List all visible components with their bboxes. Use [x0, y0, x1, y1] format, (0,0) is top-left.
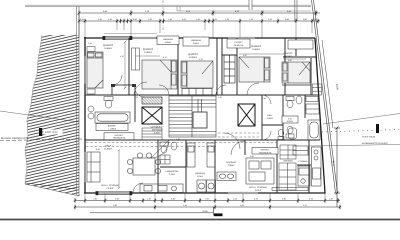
svg-text:TRANQUETA: TRANQUETA: [113, 137, 126, 140]
street level marker: [39, 128, 42, 136]
svg-text:4,70: 4,70: [199, 58, 203, 61]
window left wall: [84, 56, 86, 84]
corridor right fixtures: wc top: [286, 96, 318, 138]
svg-text:0,80: 0,80: [303, 18, 307, 21]
svg-text:13,80m²: 13,80m²: [252, 48, 260, 51]
varanda label box B: [183, 37, 209, 46]
windows on top wall: [132, 37, 255, 39]
washers: [197, 180, 216, 192]
duct box: [112, 85, 135, 95]
bed room1: [87, 52, 103, 88]
svg-text:5,75: 5,75: [333, 160, 336, 165]
small bath: [160, 142, 177, 164]
internal dim room5: [283, 58, 306, 60]
svg-text:3,95: 3,95: [250, 155, 254, 158]
left wall: [84, 37, 86, 194]
bathtub right vertical: [308, 120, 320, 140]
svg-text:2,05: 2,05: [182, 18, 186, 21]
interior walls vertical top band: [129, 38, 296, 95]
svg-text:TRANQUETA: TRANQUETA: [259, 151, 272, 154]
svg-text:COZINHA: COZINHA: [226, 161, 236, 164]
kitchen counter bottom left: [140, 184, 183, 193]
svg-text:VARANDA: VARANDA: [191, 39, 202, 42]
svg-text:ÁTILA: ÁTILA: [197, 175, 203, 178]
svg-text:1,10: 1,10: [262, 97, 266, 100]
svg-text:BANHO /: BANHO /: [108, 125, 117, 128]
svg-text:0,60: 0,60: [133, 18, 137, 21]
desk room2: [132, 48, 140, 70]
svg-text:SALA + COZINHA: SALA + COZINHA: [101, 184, 119, 187]
shelf steps right: [313, 84, 322, 95]
closet label box: [227, 39, 250, 48]
door arc room2: [134, 82, 147, 95]
staircase: [169, 96, 216, 137]
svg-text:1,95: 1,95: [196, 18, 200, 21]
door arc room1: [112, 75, 122, 85]
landing steps below elevator: [142, 128, 162, 140]
parapet gray band bottom wall: [97, 192, 130, 195]
svg-text:L. ÁREA: L. ÁREA: [108, 128, 117, 131]
svg-text:2,75m²: 2,75m²: [169, 173, 176, 176]
svg-text:1,35: 1,35: [147, 198, 151, 201]
svg-text:5,45: 5,45: [96, 148, 100, 151]
bottom chain row 1: [75, 200, 340, 202]
svg-text:1,45: 1,45: [233, 198, 237, 201]
witness lines bottom: [85, 194, 325, 199]
lot side boundary lines: [76, 6, 78, 195]
street leader line: [0, 111, 79, 122]
svg-text:5,05m²: 5,05m²: [267, 117, 274, 120]
svg-text:1,20: 1,20: [176, 138, 180, 141]
entry door arc bottom right apt: [231, 141, 245, 155]
label box banho: [96, 124, 128, 131]
internal dim room1: [124, 42, 126, 88]
bottom chain row 2: [75, 206, 340, 208]
svg-text:VARANDA: VARANDA: [283, 160, 293, 163]
svg-text:1,35: 1,35: [225, 18, 229, 21]
lower chain numbers: [80, 18, 317, 21]
hall dashes: [218, 133, 260, 137]
nightstand room1 top: [87, 47, 95, 52]
svg-text:QUARTO: QUARTO: [251, 45, 261, 48]
wardrobe strip room4: [224, 55, 235, 83]
stair rails: [197, 99, 199, 112]
sight line solid: [323, 114, 400, 125]
svg-text:4,05m²: 4,05m²: [193, 42, 200, 45]
svg-text:VER DET.: VER DET.: [260, 149, 270, 152]
parapet gray band top wall: [104, 36, 131, 39]
svg-text:2,50: 2,50: [115, 198, 119, 201]
svg-text:ÁTILA: ÁTILA: [255, 189, 262, 192]
label box tranqueta: [104, 133, 134, 140]
centerline at top: [162, 0, 164, 30]
svg-text:VER DET.: VER DET.: [114, 134, 124, 137]
corridor dashed beam lines bottom: [86, 143, 277, 147]
svg-text:5,17: 5,17: [303, 204, 307, 207]
entry door arc left apt: [151, 140, 169, 158]
svg-text:1,10: 1,10: [249, 18, 253, 21]
svg-text:QUARTO: QUARTO: [284, 52, 293, 55]
windows on bottom wall: [228, 192, 258, 194]
svg-text:13,90m²: 13,90m²: [189, 56, 197, 59]
shelf right top: [306, 104, 319, 114]
bottom black marker: [213, 207, 215, 216]
hatch crossing line: [25, 183, 76, 189]
bed room4: [239, 57, 270, 82]
sliding window bottom right: [272, 188, 308, 191]
svg-text:LOTE 12/13: LOTE 12/13: [45, 131, 58, 134]
svg-text:13,90m²: 13,90m²: [144, 51, 152, 54]
bottom wall: [84, 192, 326, 194]
top dimension chain upper: [79, 12, 320, 14]
level marker right: [376, 124, 379, 133]
bed room3: [181, 61, 213, 88]
svg-text:1,20: 1,20: [93, 198, 97, 201]
door arc duct right: [135, 88, 144, 97]
lower bath toilet: [278, 128, 297, 140]
svg-text:1,45: 1,45: [88, 42, 92, 45]
svg-text:2,70: 2,70: [309, 198, 313, 201]
bed room5: [282, 62, 310, 83]
svg-text:1,30: 1,30: [329, 198, 333, 201]
kitchen counter center: [217, 172, 236, 181]
internal dim room2: [136, 55, 160, 57]
corridor bath left: toilet top: [88, 97, 113, 120]
svg-text:0,90: 0,90: [285, 18, 289, 21]
hatch bottom cut line: [25, 184, 79, 196]
corridor door arcs: [159, 85, 271, 140]
internal dim line room4: [239, 53, 284, 55]
boxed label ver det: [252, 148, 278, 155]
dining table: [127, 153, 160, 175]
top dimension chain lower: [79, 20, 320, 22]
internal dim sala: [118, 149, 120, 189]
svg-text:4,70: 4,70: [120, 55, 124, 58]
svg-text:2,80: 2,80: [282, 198, 286, 201]
elevator left shaft band: [142, 97, 162, 104]
svg-text:7,98m²: 7,98m²: [228, 164, 235, 167]
svg-text:VARANDA: VARANDA: [195, 172, 206, 175]
svg-text:CLOSET: CLOSET: [284, 55, 293, 58]
svg-text:RUA MAL. FRANÇA LEITE: RUA MAL. FRANÇA LEITE: [1, 137, 29, 140]
svg-text:2,70: 2,70: [254, 198, 258, 201]
elevator left: [142, 107, 162, 124]
alignment line right: [309, 145, 400, 147]
room5 bottom divider: [282, 84, 311, 86]
room dimension specks: [88, 42, 292, 158]
svg-text:0,45: 0,45: [80, 18, 84, 21]
svg-text:4,45: 4,45: [183, 204, 187, 207]
svg-text:ALINHAMENTO DO MURO: ALINHAMENTO DO MURO: [362, 142, 388, 145]
rug + sofa set: [246, 158, 274, 184]
middle band inner walls: [135, 95, 305, 140]
svg-text:0,70: 0,70: [268, 18, 272, 21]
bed room2: [142, 60, 177, 89]
svg-text:1,45: 1,45: [98, 18, 102, 21]
svg-text:0,15: 0,15: [213, 18, 217, 21]
svg-text:FILIPE/VA: FILIPE/VA: [234, 44, 244, 47]
svg-text:VESTÍBULO /: VESTÍBULO /: [151, 126, 164, 129]
door arc room3: [247, 83, 259, 95]
svg-text:4,05m²: 4,05m²: [165, 41, 172, 44]
svg-text:4,05: 4,05: [243, 54, 247, 57]
top band inner dividers: [222, 55, 316, 57]
hatch area left edge: [25, 35, 42, 184]
svg-text:4,70: 4,70: [163, 56, 167, 59]
witness lines from dims to wall: [85, 23, 312, 38]
svg-text:FILIPE: FILIPE: [107, 187, 114, 190]
svg-text:QUARTO: QUARTO: [143, 48, 153, 51]
svg-text:QUARTO: QUARTO: [188, 53, 198, 56]
stair core landing: [193, 112, 207, 128]
upper chain numbers: [103, 10, 292, 13]
svg-text:1,50: 1,50: [205, 198, 209, 201]
sofa left: [87, 152, 100, 182]
street centerline dashed: [0, 139, 83, 141]
right slanted wall: [315, 38, 325, 193]
right vertical dimension: [334, 127, 340, 207]
exterior walls: [84, 37, 326, 194]
C.S. label box: [282, 116, 298, 123]
door arc bottom-left apt: [133, 183, 143, 193]
svg-text:LAVANDERIA: LAVANDERIA: [166, 170, 179, 173]
svg-text:1,10: 1,10: [108, 18, 112, 21]
svg-text:CLOSET: CLOSET: [234, 41, 243, 44]
svg-text:1,40: 1,40: [168, 18, 172, 21]
wall right of room5: [310, 58, 312, 95]
svg-text:COZINHA: COZINHA: [299, 160, 309, 163]
svg-text:13,85m²: 13,85m²: [104, 47, 112, 50]
marker label: [44, 130, 63, 135]
bottom sheet border line: [0, 219, 400, 221]
corridor walls: [85, 95, 320, 140]
hall door arc: [224, 133, 240, 149]
svg-text:QUARTO: QUARTO: [103, 44, 113, 47]
svg-text:2,30: 2,30: [171, 198, 175, 201]
varanda climat box: [288, 40, 313, 49]
top wall: [84, 37, 315, 39]
street slope hatch area: [25, 35, 79, 196]
svg-text:SALA: SALA: [105, 145, 112, 148]
svg-text:COTA 745,30: COTA 745,30: [362, 136, 376, 139]
slanted right lot boundary: [312, 0, 338, 193]
svg-text:1,75: 1,75: [218, 96, 222, 99]
balcony rail line top: [104, 33, 157, 35]
svg-text:5,25m²: 5,25m²: [287, 120, 294, 123]
svg-text:19,05: 19,05: [202, 210, 208, 213]
svg-text:SALA + COZINHA: SALA + COZINHA: [249, 186, 267, 189]
svg-text:2,00: 2,00: [288, 59, 292, 62]
svg-text:4,05: 4,05: [240, 204, 244, 207]
svg-text:2,70m²: 2,70m²: [154, 131, 161, 134]
window left wall sala: [84, 152, 86, 182]
left vertical dim line: [78, 13, 80, 37]
svg-text:VARANDA: VARANDA: [163, 38, 174, 41]
svg-text:21,85m²: 21,85m²: [104, 148, 112, 151]
service counters: [187, 143, 215, 167]
svg-text:5,90: 5,90: [113, 204, 117, 207]
nightstand room1 bottom: [87, 89, 95, 94]
right slant dimension line: [322, 40, 333, 128]
svg-text:HALL: HALL: [267, 114, 273, 117]
bottom chain row 3: [90, 212, 213, 214]
svg-text:1,00: 1,00: [148, 18, 152, 21]
svg-text:ENTRADA: ENTRADA: [152, 128, 163, 131]
svg-text:C.S.: C.S.: [288, 117, 292, 120]
varanda label box A: [157, 36, 179, 45]
interior walls bottom band: [158, 140, 311, 193]
corridor bath left: tub: [95, 112, 130, 123]
wardrobe strip room3: [182, 89, 212, 96]
svg-text:1,75: 1,75: [134, 96, 138, 99]
grid cabinet: [280, 145, 296, 159]
svg-text:0,45: 0,45: [313, 18, 317, 21]
top lot boundary: [25, 5, 311, 11]
lot boundary notch verticals: [249, 0, 297, 21]
elevator right: [238, 104, 255, 126]
dotted level line right: [322, 130, 400, 133]
